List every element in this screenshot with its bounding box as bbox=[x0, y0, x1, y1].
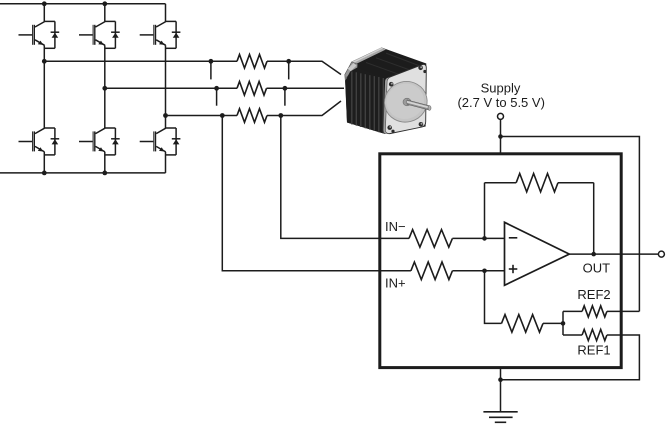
resistor sense B bbox=[237, 82, 267, 96]
wire emitter Q1 to phase node bbox=[43, 45, 45, 61]
node phase C dot bbox=[163, 113, 168, 118]
svg-text:OUT: OUT bbox=[583, 261, 611, 276]
wire phase B bbox=[105, 87, 237, 89]
wire phase B sense stub right bbox=[284, 88, 286, 105]
wire IN- from sense C right node bbox=[281, 116, 409, 239]
op-amp plus sign bbox=[509, 268, 518, 270]
svg-text:IN+: IN+ bbox=[385, 276, 406, 291]
svg-text:REF2: REF2 bbox=[577, 287, 610, 302]
node phase C sense right bbox=[278, 113, 283, 118]
wire supply down into box bbox=[500, 119, 502, 153]
transistor Q2 bbox=[19, 128, 60, 155]
op-amp U1 box outline bbox=[380, 154, 621, 368]
node phase A sense right bbox=[286, 59, 291, 64]
wire REF1 left lead bbox=[563, 334, 582, 336]
wire emitter Q4 to bottom rail bbox=[104, 152, 106, 173]
wire IN+ from sense C left node bbox=[222, 116, 411, 271]
wire phase A sense stub left bbox=[210, 61, 212, 79]
transistor Q5 bbox=[140, 21, 181, 48]
resistor reference divider bbox=[502, 315, 544, 333]
op-amp minus sign bbox=[509, 237, 518, 239]
wire feedback left vertical bbox=[484, 183, 486, 239]
resistor input IN- bbox=[409, 230, 452, 248]
wire emitter Q6 to bottom rail bbox=[165, 152, 167, 173]
node supply junction bbox=[498, 134, 503, 139]
wire IN+ to non-inverting input bbox=[452, 270, 504, 272]
node inverting input junction bbox=[482, 236, 487, 241]
wire IN- to inverting input bbox=[452, 237, 504, 239]
resistor sense C bbox=[237, 109, 267, 123]
node bottom rail junction 2 bbox=[102, 171, 107, 176]
resistor input IN+ bbox=[411, 262, 453, 280]
wire supply to REF2 rail bbox=[501, 137, 640, 312]
transistor Q3 bbox=[79, 21, 120, 48]
wire REF junction vertical bbox=[562, 311, 564, 335]
wire REF1 to ground return bbox=[501, 335, 640, 380]
wire emitter Q5 to phase node bbox=[165, 45, 167, 115]
node ground junction bbox=[498, 377, 503, 382]
svg-text:REF1: REF1 bbox=[577, 343, 610, 358]
wire emitter Q2 to bottom rail bbox=[43, 152, 45, 173]
ground symbol bbox=[483, 412, 517, 423]
svg-text:IN−: IN− bbox=[385, 219, 406, 234]
node phase B sense right bbox=[283, 86, 288, 91]
wire phase A bbox=[44, 60, 237, 62]
wire collector Q1 bbox=[43, 4, 45, 22]
node top rail junction 1 bbox=[42, 1, 47, 6]
node phase B dot bbox=[102, 86, 107, 91]
node top rail junction 2 bbox=[102, 1, 107, 6]
svg-text:(2.7 V to 5.5 V): (2.7 V to 5.5 V) bbox=[457, 95, 544, 110]
wire non-inverting node down bbox=[485, 271, 502, 324]
resistor sense A bbox=[237, 55, 267, 69]
wire collector Q6 bbox=[165, 116, 167, 129]
wire collector Q2 bbox=[43, 61, 45, 128]
wire REF2 left lead bbox=[563, 310, 582, 312]
resistor REF1 bbox=[582, 329, 607, 340]
wire phase A to motor bbox=[267, 61, 341, 74]
wire feedback top left bbox=[485, 182, 517, 184]
node output feedback junction bbox=[591, 252, 596, 257]
resistor feedback bbox=[516, 174, 558, 192]
wire phase B to motor bbox=[267, 87, 345, 89]
wire phase C bbox=[166, 115, 238, 117]
transistor Q1 bbox=[19, 21, 60, 48]
svg-text:Supply: Supply bbox=[481, 81, 521, 96]
wire REF2 to supply rail bbox=[607, 310, 640, 312]
node phase A sense left bbox=[209, 59, 214, 64]
node phase A dot bbox=[42, 59, 47, 64]
node REF junction bbox=[561, 321, 566, 326]
wire phase B sense stub left bbox=[216, 88, 218, 105]
wire bottom rail bbox=[0, 172, 166, 174]
op-amp U1 triangle bbox=[505, 222, 570, 285]
node bottom rail junction 1 bbox=[42, 171, 47, 176]
wire collector Q5 bbox=[165, 4, 167, 22]
wire ground stem bbox=[500, 368, 502, 412]
stepper motor bbox=[345, 48, 432, 135]
wire phase A sense stub right bbox=[288, 61, 290, 79]
wire feedback top right bbox=[558, 182, 594, 184]
wire output bbox=[569, 253, 658, 255]
wire emitter Q3 to phase node bbox=[104, 45, 106, 88]
terminal OUT circle bbox=[658, 251, 664, 257]
node phase B sense left bbox=[214, 86, 219, 91]
transistor Q4 bbox=[79, 128, 120, 155]
wire feedback right vertical bbox=[593, 183, 595, 254]
wire collector Q4 bbox=[104, 88, 106, 128]
node phase C sense left bbox=[220, 113, 225, 118]
wire to REF junction bbox=[543, 322, 563, 324]
wire collector Q3 bbox=[104, 4, 106, 22]
wire phase C to motor bbox=[267, 101, 341, 116]
terminal Supply circle bbox=[498, 113, 504, 119]
wire top rail bbox=[0, 3, 166, 5]
node non-inverting input junction bbox=[482, 269, 487, 274]
transistor Q6 bbox=[140, 128, 181, 155]
resistor REF2 bbox=[582, 306, 607, 317]
